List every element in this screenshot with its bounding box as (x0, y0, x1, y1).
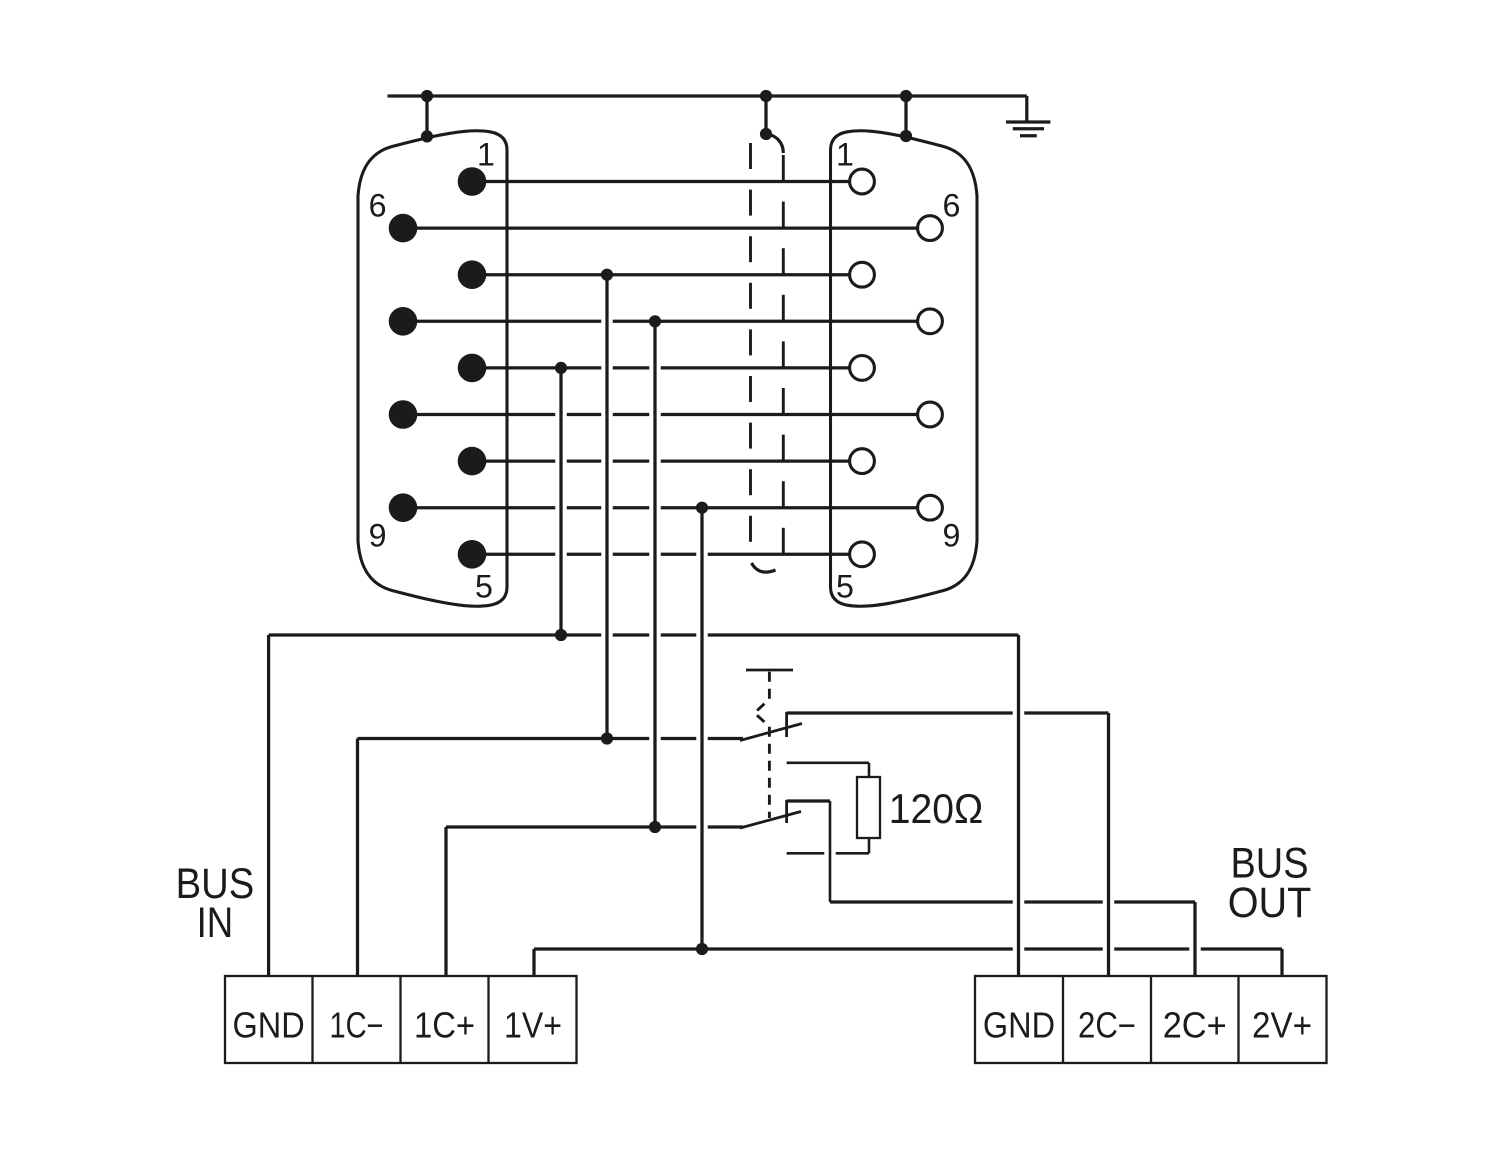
svg-text:GND: GND (983, 1005, 1055, 1045)
svg-text:1C+: 1C+ (414, 1005, 475, 1045)
svg-text:OUT: OUT (1228, 879, 1312, 927)
svg-text:GND: GND (233, 1005, 305, 1045)
svg-text:1: 1 (836, 137, 854, 173)
svg-text:6: 6 (369, 188, 387, 224)
svg-text:9: 9 (369, 518, 387, 554)
svg-text:5: 5 (475, 569, 493, 605)
svg-text:9: 9 (943, 518, 961, 554)
svg-text:1C−: 1C− (330, 1005, 384, 1045)
svg-text:5: 5 (836, 569, 854, 605)
svg-text:2C−: 2C− (1078, 1005, 1136, 1045)
svg-text:2V+: 2V+ (1252, 1005, 1312, 1045)
svg-text:2C+: 2C+ (1163, 1005, 1227, 1045)
svg-text:IN: IN (197, 899, 234, 947)
svg-text:1V+: 1V+ (504, 1005, 562, 1045)
svg-text:1: 1 (477, 137, 495, 173)
svg-text:6: 6 (943, 188, 961, 224)
svg-text:120Ω: 120Ω (889, 785, 983, 832)
